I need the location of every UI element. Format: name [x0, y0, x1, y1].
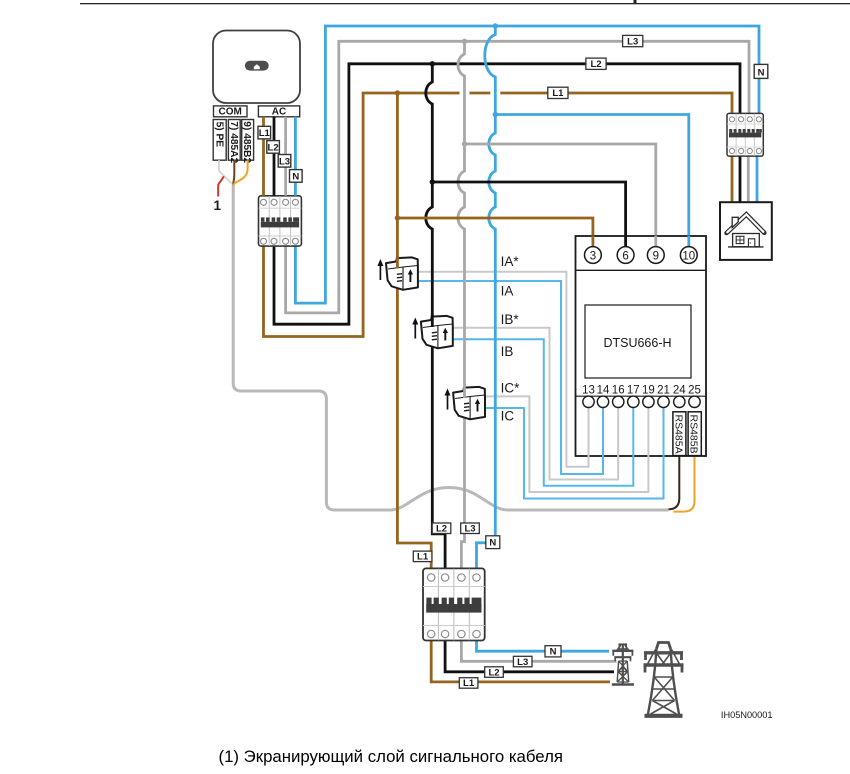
meter terminal 6 — [617, 247, 634, 264]
wire phase C vertical (gray) through CT C to bottom breaker, hops — [458, 41, 465, 568]
label IC* — [501, 381, 520, 396]
label L2 (above bottom breaker) — [432, 523, 451, 535]
label L1 (top) — [548, 87, 568, 99]
svg-text:(1) Экранирующий слой сигнальн: (1) Экранирующий слой сигнального кабеля — [219, 747, 563, 766]
meter bottom terminal numbers 13 14 16 17 19 21 24 25 — [582, 385, 701, 397]
svg-text:L3: L3 — [517, 657, 528, 668]
wire branch to meter terminal 6 (black) — [432, 182, 625, 248]
wires AC L1 L2 L3 N from inverter to left breaker — [264, 117, 296, 196]
meter terminal 9 — [647, 247, 664, 264]
wire IC* (CT C white lead to terminal 19) — [484, 396, 648, 492]
wire ground mark 1 (red) — [218, 176, 224, 196]
wire IB (CT B blue lead to terminal 17) — [452, 339, 633, 486]
label RS485B — [688, 412, 702, 456]
circuit breaker bottom (4-pole, utility side) — [423, 568, 485, 640]
svg-text:L1: L1 — [259, 128, 271, 139]
COM pin 9) 485B2 — [241, 120, 253, 164]
svg-text:N: N — [489, 538, 496, 549]
wire L1 brown: breaker U-turn, top horizontal, to right breaker — [264, 93, 733, 337]
label N (above bottom breaker) — [486, 536, 500, 549]
label L3 (top) — [623, 35, 643, 47]
svg-text:7) 485A2: 7) 485A2 — [228, 121, 239, 163]
svg-text:L1: L1 — [552, 88, 564, 99]
wires from bottom breaker to grid: L1 L2 L3 N — [431, 641, 616, 682]
label IA — [501, 284, 514, 299]
inverter U1 body — [213, 31, 300, 104]
caption (1) — [219, 747, 563, 766]
svg-text:IC*: IC* — [501, 381, 520, 396]
COM pin 7) 485A2 — [228, 120, 240, 164]
svg-text:N: N — [550, 647, 557, 658]
wire phase A vertical (brown) through CT A to bottom breaker — [397, 93, 431, 568]
label IC — [501, 409, 515, 424]
wire 485A2 (dark brown) — [233, 160, 234, 185]
svg-text:N: N — [292, 172, 299, 183]
svg-text:9: 9 — [653, 250, 659, 262]
svg-text:L2: L2 — [436, 524, 447, 535]
label IB — [501, 344, 514, 359]
label L1 (bottom grid) — [459, 678, 478, 690]
svg-text:13: 13 — [582, 385, 595, 397]
wire IA* (CT A white lead to terminal 13) — [417, 272, 589, 467]
svg-text:L3: L3 — [279, 156, 290, 167]
wire RS485B (orange) from meter terminal 25 — [674, 456, 695, 512]
meter terminal 10 — [680, 247, 697, 264]
label N (top right) — [754, 64, 768, 78]
meter bottom terminal circles — [583, 396, 700, 407]
wire shield (gray) from COM to RS485 terminals — [233, 185, 668, 510]
svg-text:3: 3 — [590, 250, 596, 262]
circuit breaker right (4-pole, house side) — [727, 113, 763, 156]
wire IB* (CT B white lead to terminal 16) — [452, 328, 618, 480]
svg-text:L1: L1 — [463, 678, 475, 689]
svg-text:L1: L1 — [417, 552, 429, 563]
inverter AC port box — [258, 106, 299, 118]
CT A (current transformer on phase A) — [377, 256, 418, 290]
node: L1 branch to meter — [395, 215, 400, 220]
CT B (current transformer on phase B) — [412, 315, 453, 349]
svg-text:14: 14 — [597, 385, 610, 397]
node: N tap to meter 10 — [493, 23, 498, 28]
wire IA (CT A blue lead to terminal 14) — [417, 281, 603, 474]
label 1 — [214, 198, 222, 213]
label N (bottom grid) — [545, 646, 561, 658]
label L2 (AC cascade) — [267, 141, 280, 154]
label L2 (bottom grid) — [485, 667, 504, 679]
svg-text:10: 10 — [682, 250, 695, 262]
svg-text:IA*: IA* — [501, 254, 520, 269]
wire RS485A (dark brown) from meter terminal 24 — [669, 456, 680, 510]
wire stubs into meter terminals (over meter body) — [589, 236, 689, 458]
label L3 (AC cascade) — [278, 155, 291, 168]
wire phase B vertical (black) through CT B to bottom breaker, hops at L1 and meter branch — [426, 64, 445, 569]
svg-text:L2: L2 — [488, 667, 499, 678]
svg-text:1: 1 — [214, 198, 222, 213]
svg-text:IB*: IB* — [501, 312, 520, 327]
svg-text:L2: L2 — [590, 59, 601, 70]
svg-text:L2: L2 — [268, 143, 279, 154]
svg-text:6: 6 — [622, 250, 628, 262]
svg-text:5) PE: 5) PE — [213, 122, 224, 148]
label L1 (AC cascade) — [258, 126, 271, 139]
node: L3 branch to meter — [462, 141, 467, 146]
svg-text:IA: IA — [501, 284, 514, 299]
node: N branch to meter — [493, 112, 498, 117]
wire L3 gray: breaker U-turn, top horizontal, to right breaker — [286, 41, 749, 313]
meter terminal 3 — [585, 247, 602, 264]
node: L1 tap — [395, 90, 400, 95]
svg-text:RS485A: RS485A — [672, 415, 684, 454]
node: L2 branch to meter — [430, 179, 435, 184]
svg-text:24: 24 — [673, 385, 686, 397]
svg-text:9) 485B2: 9) 485B2 — [241, 121, 252, 163]
svg-text:N: N — [758, 68, 765, 79]
node: L3 tap — [462, 39, 467, 44]
page top rule — [80, 0, 850, 4]
svg-text:RS485B: RS485B — [688, 415, 700, 454]
circuit breaker left (4-pole, below inverter AC) — [259, 196, 302, 246]
house (load) box — [720, 202, 772, 260]
label IH05N00001 — [721, 710, 773, 720]
svg-text:COM: COM — [219, 107, 242, 118]
wire branch to meter terminal 10 (blue) — [495, 115, 689, 249]
label L2 (top) — [586, 58, 606, 70]
wires from right breaker to house: L1 L2 L3 N — [732, 156, 757, 202]
label IA* — [501, 254, 520, 269]
svg-text:L3: L3 — [464, 524, 475, 535]
svg-text:19: 19 — [642, 385, 655, 397]
wire IC (CT C blue lead to terminal 21) — [484, 406, 664, 499]
label IB* — [501, 312, 520, 327]
label RS485A — [672, 412, 686, 456]
svg-text:IC: IC — [501, 409, 515, 424]
svg-text:17: 17 — [627, 385, 640, 397]
CT C (current transformer on phase C) — [445, 386, 486, 420]
wire N blue: breaker U-turn, top horizontal, to right breaker — [295, 26, 759, 303]
house icon — [727, 214, 765, 247]
svg-text:21: 21 — [657, 385, 670, 397]
node: L2 tap — [430, 61, 435, 66]
meter DTSU666-H body — [576, 236, 707, 456]
wire branch to meter terminal 9 (gray) — [465, 144, 656, 248]
wire PE shield lead (light gray) — [219, 160, 232, 183]
label L3 (above bottom breaker) — [461, 523, 480, 535]
label L1 (above bottom breaker) — [413, 551, 432, 563]
transmission tower small — [612, 644, 634, 685]
svg-text:DTSU666-H: DTSU666-H — [603, 336, 671, 350]
label N (AC cascade) — [290, 170, 303, 183]
COM pin 5) PE — [213, 120, 226, 161]
svg-text:16: 16 — [612, 385, 625, 397]
svg-text:IB: IB — [501, 344, 514, 359]
label L3 (bottom grid) — [513, 656, 532, 668]
transmission tower large — [644, 643, 684, 716]
svg-text:IH05N00001: IH05N00001 — [721, 710, 773, 720]
wire L2 black: breaker U-turn, top horizontal, to right breaker — [274, 64, 740, 324]
wire 485B2 (orange) — [233, 160, 247, 186]
svg-text:25: 25 — [688, 385, 701, 397]
wire branch to meter terminal 3 (brown) — [397, 218, 593, 248]
wire neutral vertical (blue) to bottom breaker, hops — [477, 26, 496, 568]
svg-text:L3: L3 — [627, 36, 638, 47]
inverter COM port box — [214, 106, 248, 118]
svg-text:AC: AC — [272, 107, 286, 118]
